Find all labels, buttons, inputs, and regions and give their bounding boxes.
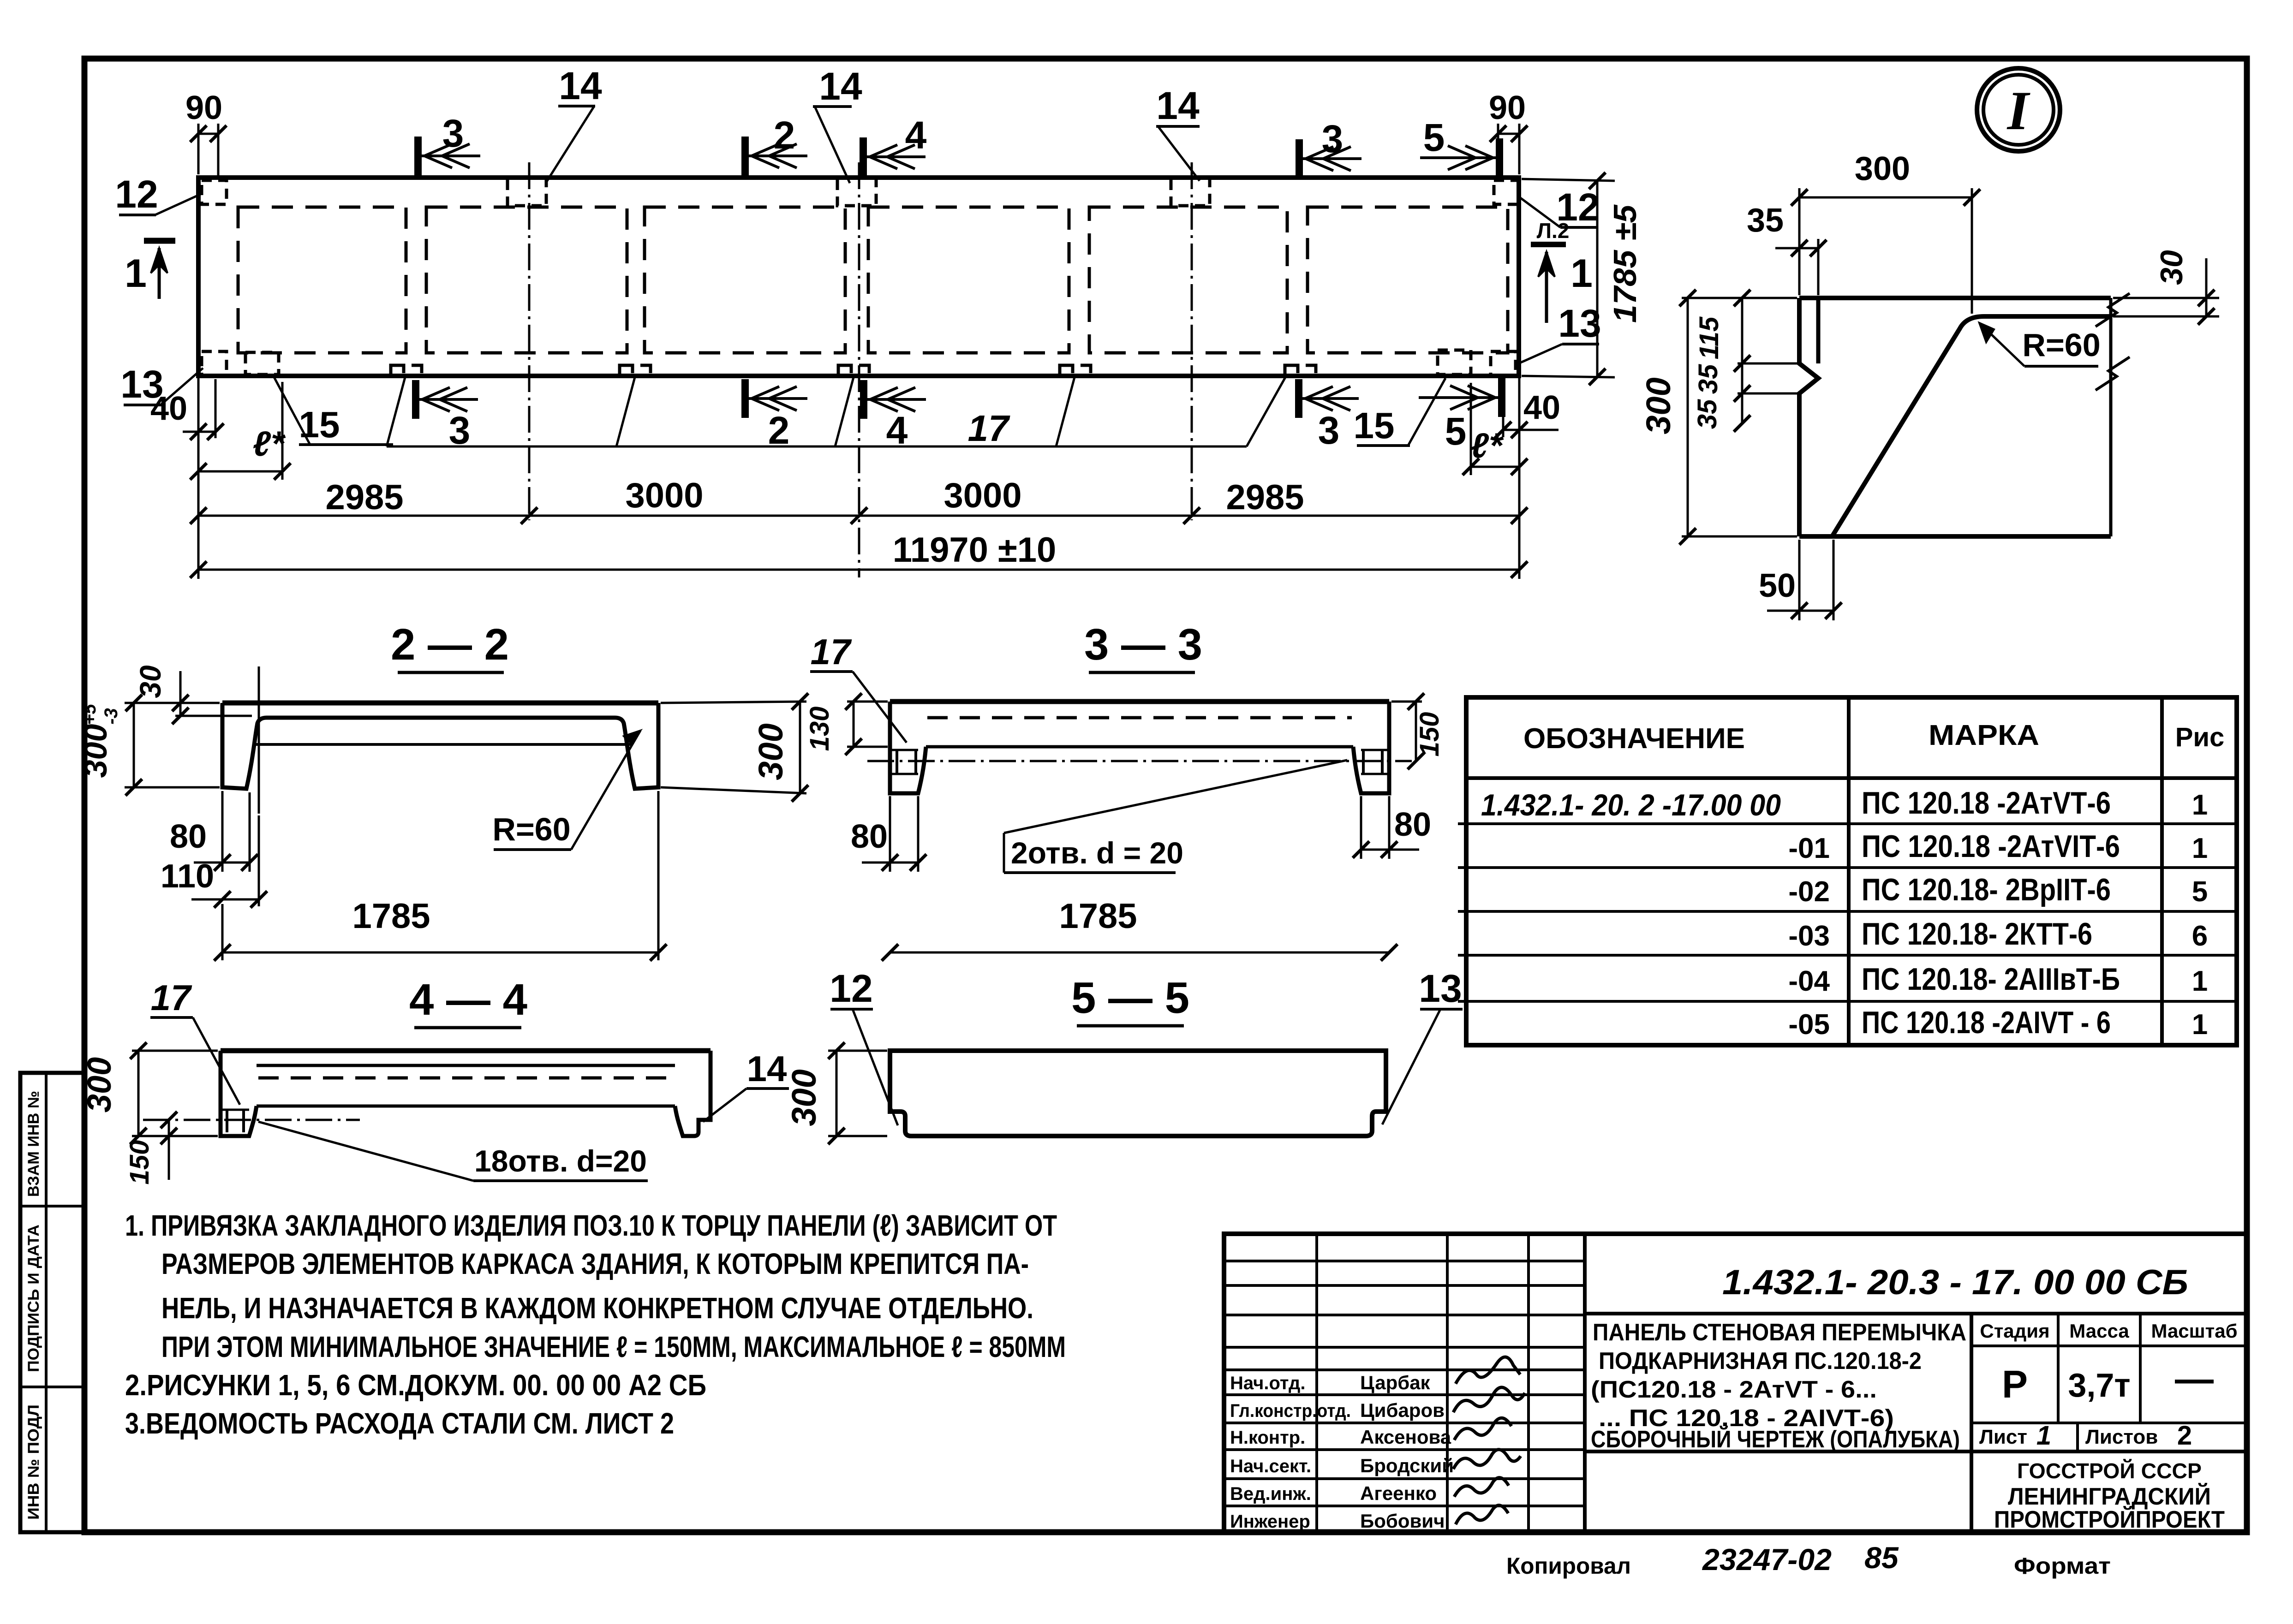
svg-text:-01: -01 (1788, 833, 1830, 864)
svg-text:+5: +5 (79, 703, 100, 725)
section arrow 2 top (741, 137, 749, 175)
svg-text:18отв. d=20: 18отв. d=20 (474, 1144, 647, 1178)
svg-text:2985: 2985 (325, 478, 403, 517)
svg-text:115: 115 (1694, 316, 1724, 359)
svg-text:Цибаров: Цибаров (1360, 1399, 1445, 1421)
3-3 horizontal axis chain line (867, 760, 1412, 762)
detail dim 300 left (1682, 297, 1797, 299)
svg-text:ГОССТРОЙ СССР: ГОССТРОЙ СССР (2017, 1459, 2202, 1483)
detail dims 115/35/35 (1738, 363, 1797, 365)
svg-text:Бобович: Бобович (1360, 1510, 1445, 1532)
svg-text:—: — (2175, 1357, 2214, 1400)
svg-text:35: 35 (1692, 399, 1722, 429)
section 5-5 profile (890, 1051, 1386, 1136)
svg-text:11970 ±10: 11970 ±10 (893, 530, 1057, 570)
section arrow 4 top (860, 137, 867, 176)
svg-text:300: 300 (752, 723, 790, 780)
svg-text:13: 13 (1558, 302, 1601, 345)
svg-text:Стадия: Стадия (1980, 1320, 2049, 1342)
svg-text:3 — 3: 3 — 3 (1084, 620, 1202, 669)
2-2 dim 1785 bottom (657, 791, 660, 960)
svg-text:14: 14 (559, 64, 602, 107)
svg-text:R=60: R=60 (2022, 327, 2100, 363)
svg-text:Л.2: Л.2 (1537, 219, 1570, 243)
embedded plate 15 right (1438, 350, 1471, 375)
svg-text:3000: 3000 (625, 476, 703, 515)
svg-text:80: 80 (170, 818, 207, 855)
svg-text:3: 3 (1322, 117, 1344, 161)
svg-text:15: 15 (299, 404, 340, 445)
svg-text:Масса: Масса (2069, 1320, 2129, 1342)
svg-text:5: 5 (1445, 410, 1467, 453)
svg-text:ℓ*: ℓ* (1471, 426, 1504, 465)
detail dim 35 top (1817, 239, 1820, 295)
svg-text:14: 14 (1156, 84, 1200, 127)
svg-text:15: 15 (1354, 405, 1395, 446)
section 3-3 profile (890, 699, 1389, 704)
svg-text:ПОДПИСЬ И ДАТА: ПОДПИСЬ И ДАТА (25, 1225, 42, 1372)
3-3 hole in left leg (896, 750, 898, 774)
svg-text:НЕЛЬ, И НАЗНАЧАЕТСЯ В КАЖД: НЕЛЬ, И НАЗНАЧАЕТСЯ В КАЖДОМ КОНКРЕТНОМ … (161, 1291, 1033, 1325)
svg-text:Р: Р (2002, 1362, 2028, 1406)
svg-text:17: 17 (151, 977, 192, 1018)
svg-text:80: 80 (851, 818, 888, 855)
svg-text:90: 90 (1489, 89, 1526, 126)
svg-text:1: 1 (2192, 965, 2208, 997)
svg-text:17: 17 (811, 631, 852, 672)
svg-text:Лист: Лист (1979, 1426, 2027, 1448)
3-3 dim 80 right (1360, 796, 1362, 859)
svg-text:130: 130 (805, 707, 835, 751)
svg-text:85: 85 (1864, 1541, 1899, 1575)
svg-text:300: 300 (78, 724, 113, 778)
dimension row 2985/3000/3000/2985 (198, 515, 1519, 517)
svg-text:3.ВЕДОМОСТЬ РАСХОДА СТАЛИ: 3.ВЕДОМОСТЬ РАСХОДА СТАЛИ СМ. ЛИСТ 2 (125, 1407, 674, 1440)
svg-text:2 — 2: 2 — 2 (391, 620, 509, 669)
svg-text:80: 80 (1394, 806, 1431, 843)
svg-text:Нач.отд.: Нач.отд. (1230, 1373, 1305, 1393)
dimension 1785 +-5 right (1522, 179, 1615, 181)
svg-text:Инженер: Инженер (1230, 1511, 1310, 1532)
svg-text:ПРИ ЭТОМ МИНИМАЛЬНОЕ ЗНАЧЕНИ: ПРИ ЭТОМ МИНИМАЛЬНОЕ ЗНАЧЕНИЕ ℓ = 150ММ,… (161, 1330, 1066, 1363)
embedded plate 12 top-left (202, 180, 227, 204)
svg-text:Н.контр.: Н.контр. (1230, 1428, 1305, 1448)
svg-text:2.РИСУНКИ 1, 5, 6 СМ.ДОКУМ.: 2.РИСУНКИ 1, 5, 6 СМ.ДОКУМ. 00. 00 00 А2… (125, 1368, 706, 1402)
svg-text:R=60: R=60 (492, 811, 570, 847)
panel plan view outline (198, 178, 1519, 376)
svg-text:Гл.констр.отд.: Гл.констр.отд. (1230, 1401, 1351, 1421)
svg-text:14: 14 (819, 65, 862, 108)
svg-text:5: 5 (1423, 116, 1445, 159)
svg-text:1: 1 (2192, 1009, 2208, 1041)
svg-text:300: 300 (785, 1069, 823, 1126)
section arrow 5 bottom right (1498, 378, 1505, 417)
section arrow 2 bottom (741, 379, 749, 418)
2-2 dim 30 top-left (175, 702, 220, 704)
3-3 dim 150 right (1391, 701, 1422, 703)
3-3 dim 80 left (889, 796, 891, 872)
svg-text:4 — 4: 4 — 4 (409, 975, 527, 1024)
section arrow 5 top right (1496, 138, 1503, 177)
svg-text:ПОДКАРНИЗНАЯ ПС.120.18-2: ПОДКАРНИЗНАЯ ПС.120.18-2 (1599, 1348, 1922, 1374)
svg-text:12: 12 (830, 967, 872, 1010)
svg-text:ВЗАМ ИНВ №: ВЗАМ ИНВ № (25, 1091, 42, 1197)
svg-text:ИНВ № ПОДЛ: ИНВ № ПОДЛ (25, 1404, 42, 1520)
detail dim 50 bottom (1798, 540, 1801, 620)
svg-text:2: 2 (768, 409, 790, 452)
svg-text:4: 4 (905, 113, 927, 157)
svg-text:3: 3 (442, 112, 464, 155)
svg-text:2: 2 (2177, 1421, 2192, 1451)
svg-text:Вед.инж.: Вед.инж. (1230, 1484, 1311, 1504)
svg-text:30: 30 (134, 665, 167, 698)
dimension 11970 +-10 (198, 569, 1519, 571)
svg-text:1785 ±5: 1785 ±5 (1607, 204, 1643, 323)
section arrow 3 bottom right (1295, 379, 1302, 418)
svg-text:ОБОЗНАЧЕНИЕ: ОБОЗНАЧЕНИЕ (1523, 723, 1745, 755)
dashed opening rectangles in plan (238, 207, 406, 353)
svg-text:6: 6 (2192, 920, 2208, 952)
embedded plate 12 top-right (1494, 180, 1519, 204)
svg-text:35: 35 (1693, 364, 1723, 394)
embedded plate 15 left (245, 352, 279, 375)
svg-text:Копировал: Копировал (1506, 1553, 1631, 1579)
2-2 / 3-3 dim 300 middle (661, 702, 806, 703)
3-3 dim 130 left (847, 701, 888, 703)
svg-text:1.432.1- 20.3 - 17. 00 00 СБ: 1.432.1- 20.3 - 17. 00 00 СБ (1722, 1263, 2188, 1302)
title block frame (1224, 1234, 2247, 1532)
svg-text:ПС 120.18 -2АтVIТ-6: ПС 120.18 -2АтVIТ-6 (1862, 829, 2120, 864)
svg-text:300: 300 (1855, 150, 1910, 187)
svg-text:300: 300 (1639, 377, 1678, 434)
detail dim 30 right (2113, 297, 2219, 299)
svg-text:150: 150 (125, 1140, 155, 1185)
svg-text:СБОРОЧНЫЙ ЧЕРТЕЖ (ОПАЛУБКА): СБОРОЧНЫЙ ЧЕРТЕЖ (ОПАЛУБКА) (1591, 1426, 1960, 1453)
svg-text:40: 40 (150, 390, 187, 427)
3-3 dim 1785 bottom (890, 952, 1389, 954)
svg-text:-3: -3 (101, 708, 121, 725)
svg-text:ПС 120.18 -2АIVТ - 6: ПС 120.18 -2АIVТ - 6 (1862, 1005, 2111, 1040)
svg-text:2: 2 (774, 113, 795, 157)
svg-text:13: 13 (1419, 967, 1462, 1010)
svg-text:17: 17 (968, 408, 1010, 449)
specification table frame (1466, 697, 2237, 1045)
svg-text:1: 1 (125, 251, 147, 296)
svg-text:Нач.сект.: Нач.сект. (1230, 1456, 1311, 1476)
svg-text:90: 90 (185, 89, 222, 126)
svg-text:-04: -04 (1788, 965, 1830, 997)
4-4 chain line at left leg (143, 1119, 360, 1121)
vertical chain axis lines (528, 162, 531, 520)
left margin stamp column (20, 1073, 84, 1532)
2-2 dim 80 left (221, 791, 224, 872)
svg-text:1785: 1785 (1059, 897, 1137, 936)
svg-text:5 — 5: 5 — 5 (1071, 973, 1189, 1023)
right edge with break marks (2109, 298, 2113, 536)
svg-text:I: I (2006, 80, 2031, 141)
signatures squiggles (1456, 1357, 1520, 1384)
svg-text:40: 40 (1523, 389, 1560, 426)
title block horizontal lines left part (1224, 1260, 1585, 1262)
svg-text:1.432.1- 20. 2 -17.00 00: 1.432.1- 20. 2 -17.00 00 (1481, 788, 1781, 822)
4-4 dim 150 left (168, 1120, 170, 1136)
svg-text:1: 1 (2192, 789, 2208, 821)
svg-text:3000: 3000 (943, 476, 1021, 515)
svg-text:Рис: Рис (2175, 722, 2225, 752)
svg-text:ПС 120.18- 2КТТ-6: ПС 120.18- 2КТТ-6 (1862, 916, 2092, 952)
section arrow 3 top right (1296, 139, 1303, 178)
svg-text:(ПС120.18 - 2АтVТ - 6...: (ПС120.18 - 2АтVТ - 6... (1591, 1376, 1877, 1403)
svg-text:2отв. d = 20: 2отв. d = 20 (1011, 836, 1183, 870)
dimension l* left (281, 382, 284, 480)
section arrow 4 bottom (860, 380, 867, 419)
4-4 hole in left leg (226, 1110, 228, 1132)
svg-text:12: 12 (115, 173, 158, 216)
svg-text:Масштаб: Масштаб (2151, 1320, 2237, 1342)
svg-text:1. ПРИВЯЗКА ЗАКЛАДНОГО ИЗДЕЛ: 1. ПРИВЯЗКА ЗАКЛАДНОГО ИЗДЕЛИЯ ПОЗ.10 К … (125, 1209, 1057, 1242)
embedded plate 13 bottom-left (202, 351, 227, 375)
3-3 hole in right leg (1362, 750, 1365, 774)
svg-text:150: 150 (1415, 712, 1445, 757)
2-2 dim 300+5-3 left (125, 702, 220, 704)
svg-text:Бродский: Бродский (1360, 1455, 1454, 1476)
svg-text:50: 50 (1759, 567, 1796, 604)
svg-text:1: 1 (2036, 1421, 2051, 1451)
svg-text:23247-02: 23247-02 (1702, 1542, 1832, 1576)
svg-text:300: 300 (81, 1057, 118, 1112)
corner detail profile (1799, 296, 2111, 300)
detail marker circle I (1977, 68, 2060, 151)
svg-text:ПАНЕЛЬ СТЕНОВАЯ ПЕРЕМЫЧКА: ПАНЕЛЬ СТЕНОВАЯ ПЕРЕМЫЧКА (1593, 1319, 1966, 1346)
detail dim 300 top (1798, 188, 1801, 295)
section 4-4 profile (221, 1048, 711, 1053)
title block horizontal lines right part (1585, 1312, 2247, 1315)
svg-text:5: 5 (2192, 876, 2208, 908)
dimension 40 right (1502, 379, 1505, 437)
svg-text:ℓ*: ℓ* (253, 424, 286, 464)
5-5 dim 300 left (828, 1050, 887, 1052)
section arrow 3 bottom (412, 380, 419, 419)
dimension 40 left (215, 379, 217, 438)
svg-text:2985: 2985 (1226, 478, 1304, 517)
svg-text:ПС 120.18 -2АтVТ-6: ПС 120.18 -2АтVТ-6 (1862, 785, 2111, 821)
svg-text:Аксенова: Аксенова (1360, 1426, 1451, 1448)
svg-text:3,7т: 3,7т (2068, 1367, 2130, 1404)
svg-text:Агеенко: Агеенко (1360, 1482, 1437, 1504)
svg-text:-05: -05 (1788, 1009, 1830, 1041)
title block vertical lines (1315, 1234, 1318, 1532)
svg-text:ПС 120.18- 2АIIIвТ-Б: ПС 120.18- 2АIIIвТ-Б (1862, 962, 2120, 997)
svg-text:Формат: Формат (2014, 1553, 2111, 1579)
section mark 1 left (144, 238, 175, 244)
svg-text:-02: -02 (1788, 876, 1830, 908)
section 2-2 profile (222, 701, 658, 706)
svg-text:14: 14 (747, 1048, 787, 1089)
dimension 90 left (197, 124, 200, 174)
hole marks on bottom edge (391, 365, 404, 375)
extension lines below plan ends (197, 378, 200, 579)
2-2 dim 110 left (258, 815, 260, 906)
dimension 90 right (1497, 124, 1499, 175)
leader branches to holes (387, 377, 405, 446)
svg-text:МАРКА: МАРКА (1929, 720, 2039, 751)
svg-text:30: 30 (2154, 250, 2189, 285)
leader shelf for hole positions (387, 446, 1247, 448)
4-4 dim 300 left (132, 1050, 218, 1052)
svg-text:Царбак: Царбак (1360, 1372, 1431, 1393)
svg-text:4: 4 (886, 409, 908, 452)
svg-text:1785: 1785 (352, 897, 430, 936)
svg-text:1: 1 (1570, 251, 1593, 296)
table header row line (1466, 776, 2237, 780)
svg-text:Листов: Листов (2085, 1426, 2158, 1448)
embedded plate 13 bottom-right (1491, 351, 1516, 375)
svg-text:35: 35 (1747, 202, 1784, 239)
svg-text:3: 3 (1318, 409, 1340, 452)
svg-text:-03: -03 (1788, 920, 1830, 952)
svg-text:3: 3 (449, 409, 471, 452)
section arrow 3 top (414, 137, 422, 175)
svg-text:110: 110 (161, 858, 214, 895)
embedded plates 14 on top edge (508, 180, 546, 206)
svg-text:ПС 120.18- 2ВрIIТ-6: ПС 120.18- 2ВрIIТ-6 (1862, 872, 2111, 907)
dimension l* right (1470, 383, 1472, 475)
svg-text:РАЗМЕРОВ ЭЛЕМЕНТОВ КАРКАСА: РАЗМЕРОВ ЭЛЕМЕНТОВ КАРКАСА ЗДАНИЯ, К КОТ… (161, 1247, 1029, 1280)
svg-text:1: 1 (2192, 833, 2208, 864)
svg-text:ПРОМСТРОЙПРОЕКТ: ПРОМСТРОЙПРОЕКТ (1994, 1506, 2225, 1533)
